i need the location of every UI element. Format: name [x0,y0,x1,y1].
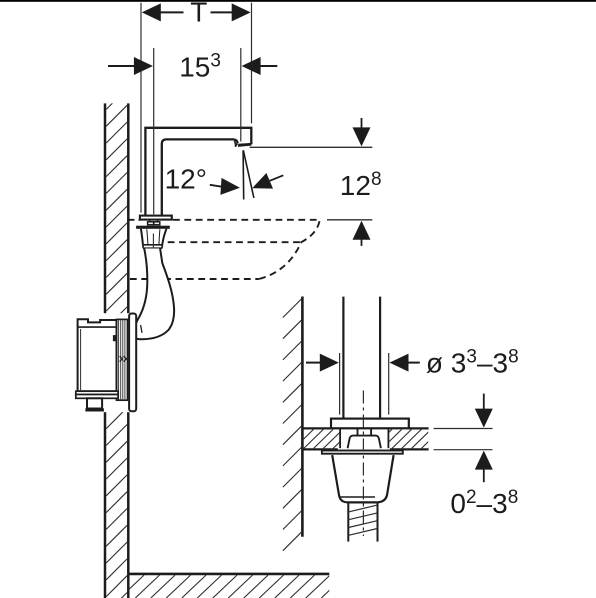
deck thickness label [450,487,518,519]
jet vertical reference line [242,151,245,200]
svg-text:T: T [190,0,207,28]
spout height reference line [250,146,373,148]
water hose (fill mask) [136,249,174,340]
rim reference line [327,219,372,221]
dimension 12-8 arrows [353,118,371,246]
dimension 12-8 label [340,169,382,201]
function box cover [75,313,137,412]
washbasin mid contour (dashed) [168,241,302,243]
detail mounting cone [332,455,393,502]
dimension 15-3 arrows [108,57,277,75]
water hose outline [136,249,174,340]
deck thickness extension lines [434,429,493,450]
detail escutcheon flange [331,419,409,429]
washbasin rim (dashed) [130,220,320,279]
deck thickness arrows [475,394,493,483]
detail pipe shank [343,297,380,419]
faucet base plate [140,216,172,220]
detail washer under deck [322,451,403,454]
svg-text:02–38: 02–38 [450,487,518,519]
svg-text:12°: 12° [165,163,207,194]
jet angle label [165,163,207,194]
faucet centerline tick [152,234,154,259]
threaded shank in hole [358,428,372,436]
washbasin bottom contour (dashed) [130,278,259,280]
dimension 15-3 extension lines [154,48,241,214]
faucet mounting washer [136,226,170,229]
detail deck (hatched slab) [294,428,441,449]
jet angle right arrow [252,173,283,189]
image top border [0,0,596,2]
deck hole walls [340,428,388,448]
dimension T arrows [142,3,251,21]
floor (hatched) [104,574,345,598]
faucet tailpiece cone [141,229,167,248]
function box clip (dark) [113,335,116,341]
detail diameter extension ticks [340,353,389,415]
detail threaded pipe [348,502,377,541]
function box chevron marks [120,356,127,361]
faucet stem below plate [148,220,160,225]
svg-text:153: 153 [179,50,221,82]
jet angle left arrow [210,178,240,195]
function box foot [85,398,104,411]
faucet spout inner profile [162,139,238,215]
faucet spout outer profile [145,128,251,216]
jet 12deg line [243,150,254,198]
detail wall (hatched) [283,297,303,551]
svg-text:ø 33–38: ø 33–38 [426,346,519,378]
dimension T label [190,0,207,28]
function box body [78,319,117,391]
hose clamp tick [141,325,142,333]
cone top in hole [348,436,381,449]
svg-text:128: 128 [340,169,382,201]
wall (hatched section) [105,89,128,598]
detail centerline [362,391,364,537]
dimension 15-3 label [179,50,221,82]
pipe threads [349,505,378,535]
dimension diameter arrows [306,354,420,372]
function box base [76,391,118,398]
dimension T line [160,11,233,13]
function box bellows (ribbed) [117,319,128,400]
function box wall plate [129,314,136,412]
faucet outlet (dark nozzle) [234,141,251,147]
dimension T extension lines [141,3,252,213]
dimension diameter label [426,346,519,378]
